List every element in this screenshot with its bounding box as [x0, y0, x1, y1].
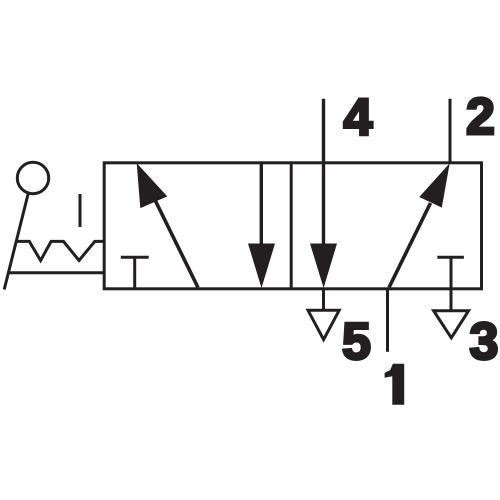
port 5 stem below body [322, 289, 325, 311]
flow arrow 1-to-2 head (filled) [419, 163, 449, 207]
detent pin (short vertical stroke) [79, 194, 82, 227]
port 4 line (top, into right square, continues as 4-to-5 arrow shaft) [322, 99, 325, 246]
port 1 line (bottom supply) [386, 289, 389, 352]
port 5 exhaust triangle (open) [308, 310, 339, 339]
port 2 line (top) [449, 99, 452, 163]
flow arrow 1-to-4 head (filled) [137, 163, 168, 208]
hand lever ball [17, 162, 48, 193]
port 3 stem through body wall [450, 257, 453, 310]
hand lever arm [4, 193, 28, 290]
flow arrow 2-to-3 in left square: shaft [260, 163, 263, 246]
port label 1 [385, 364, 405, 405]
lever pivot bar [8, 271, 104, 274]
blocked port T symbol in right square (port 3 blocked) [437, 256, 464, 259]
flow arrow 2-to-3 head (filled, pointing down) [248, 244, 275, 289]
flow arrow 1-to-4 in left square: shaft (diagonal up-left) [156, 201, 199, 288]
flow arrow 1-to-2 in right square: shaft (diagonal up-right) [389, 203, 431, 288]
blocked port T symbol in left square (port 5 blocked) [121, 256, 149, 259]
svg-text:4: 4 [344, 89, 373, 147]
arrow head 4-to-5 (filled, pointing down) [310, 244, 337, 289]
position divider line [290, 163, 293, 289]
port 3 exhaust triangle (open) [434, 311, 469, 338]
svg-text:2: 2 [466, 88, 495, 146]
detent notch zigzag [16, 241, 104, 260]
svg-text:3: 3 [470, 313, 499, 371]
svg-text:5: 5 [342, 313, 371, 371]
valve body outline (5/2 valve, two positions) [104, 163, 481, 289]
